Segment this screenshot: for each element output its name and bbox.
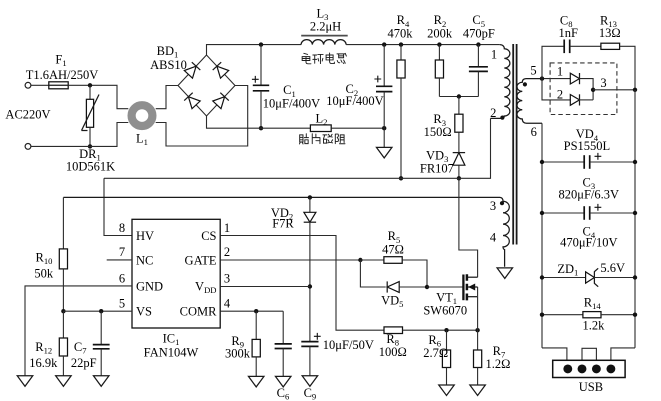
svg-text:1: 1 bbox=[557, 64, 563, 78]
phase dot secondary pin 5 bbox=[523, 82, 527, 86]
dual diode VD4 dashed package outline bbox=[550, 63, 617, 115]
wire R13 to plus rail bbox=[620, 46, 635, 90]
transformer core bbox=[512, 44, 514, 245]
svg-text:3: 3 bbox=[224, 271, 230, 285]
transformer auxiliary winding pins 3-4 bbox=[63, 197, 509, 266]
transformer T primary winding pins 1-2 bbox=[491, 45, 510, 119]
capacitor C2 bbox=[383, 45, 385, 87]
resistor R14 bbox=[542, 314, 583, 316]
transistor VT1 SW6070 MOSFET bbox=[462, 275, 464, 301]
pin 7 NC stub bbox=[107, 259, 132, 261]
junction R2 top bbox=[437, 42, 441, 46]
wire C8 to R13 bbox=[570, 45, 601, 47]
junction R6 top bbox=[444, 328, 448, 332]
junction R4 top bbox=[399, 42, 403, 46]
junction source / R7 node bbox=[475, 328, 479, 332]
junction VDD node bbox=[308, 284, 312, 288]
capacitor C5 bbox=[477, 45, 479, 67]
junction VD3 anode node bbox=[457, 176, 461, 180]
ground below R9 bbox=[248, 376, 264, 387]
node AC live terminal bbox=[25, 82, 31, 88]
label color-ring-inductor (CJK) bbox=[302, 53, 311, 63]
wire L1 to bridge AC input left bbox=[156, 86, 178, 109]
svg-text:COMR: COMR bbox=[180, 305, 217, 319]
wire R2 bottom to C5 bottom bbox=[439, 96, 478, 98]
wire VS line to IC pin 5 bbox=[63, 310, 132, 312]
ground below C9 bbox=[302, 376, 318, 387]
resistor R13 bbox=[601, 43, 620, 49]
svg-text:5: 5 bbox=[530, 63, 536, 77]
resistor R9 bbox=[255, 311, 257, 339]
diode VD4 element 1 bbox=[570, 73, 579, 84]
resistor R8 bbox=[384, 327, 403, 334]
svg-text:VS: VS bbox=[136, 305, 152, 319]
wire GATE split down to VD5 bbox=[360, 260, 385, 287]
junction C1 bottom bbox=[259, 126, 263, 130]
capacitor C6 bbox=[282, 311, 284, 344]
wire C8 branch up bbox=[542, 46, 564, 78]
svg-text:CS: CS bbox=[201, 229, 216, 243]
junction gate node bbox=[425, 285, 429, 289]
resistor R7 bbox=[477, 330, 479, 350]
svg-text:2: 2 bbox=[490, 106, 496, 120]
bridge rectifier BD1 diamond bbox=[178, 55, 235, 116]
wire VDD pin to C9/VD2 node bbox=[220, 286, 310, 288]
junction VD2 top on auxiliary line bbox=[308, 195, 312, 199]
junction GATE split bbox=[358, 258, 362, 262]
svg-text:ABS10: ABS10 bbox=[150, 58, 187, 72]
svg-text:10μF/400V: 10μF/400V bbox=[263, 97, 320, 111]
bridge diode top-left bbox=[184, 66, 196, 78]
svg-text:8: 8 bbox=[119, 221, 125, 235]
phase dot primary pin 2 bbox=[500, 116, 504, 120]
svg-text:7: 7 bbox=[119, 245, 125, 259]
svg-text:470k: 470k bbox=[388, 27, 414, 41]
wire gate node to VT1 gate bbox=[427, 286, 463, 288]
svg-text:470μF/10V: 470μF/10V bbox=[560, 236, 617, 250]
inductor L1 toroid core bbox=[132, 105, 153, 126]
wire L3 right along top rail to transformer pin 1 bbox=[346, 44, 500, 46]
svg-text:USB: USB bbox=[579, 380, 603, 394]
wire C2 bottom to primary ground bbox=[383, 128, 385, 147]
ground below R12 bbox=[56, 376, 72, 387]
svg-text:2: 2 bbox=[224, 245, 230, 259]
diode VD5 bbox=[387, 282, 399, 293]
wire plus rail down bbox=[634, 90, 636, 348]
resistor R5 bbox=[360, 259, 384, 261]
wire bridge minus to bottom rail bbox=[207, 116, 311, 128]
svg-text:AC220V: AC220V bbox=[5, 107, 50, 121]
junction C2 bottom bbox=[382, 126, 386, 130]
svg-text:16.9k: 16.9k bbox=[29, 356, 58, 370]
svg-text:NC: NC bbox=[136, 253, 153, 267]
svg-text:T1.6AH/250V: T1.6AH/250V bbox=[26, 68, 99, 82]
transformer secondary winding pins 5-6 bbox=[517, 79, 542, 124]
junction bottom of DR1 bbox=[88, 144, 92, 148]
diode VD3 bbox=[453, 153, 465, 166]
wire HV line from IC pin8 riser to drain node bbox=[104, 177, 459, 179]
capacitor C4 bbox=[542, 212, 584, 214]
ground below C2 bbox=[376, 147, 392, 158]
junction R9 top bbox=[254, 309, 258, 313]
capacitor C8 bbox=[563, 40, 565, 54]
wire VT1 source down to sense node bbox=[477, 297, 479, 331]
svg-text:1: 1 bbox=[491, 47, 497, 61]
fuse F1 bbox=[49, 82, 68, 89]
wire fuse to DR1 node and on to L1 bbox=[68, 85, 128, 108]
svg-text:1nF: 1nF bbox=[558, 26, 578, 40]
svg-text:5: 5 bbox=[119, 297, 125, 311]
svg-text:HV: HV bbox=[136, 229, 154, 243]
ground below R7 bbox=[470, 385, 486, 396]
wire L1 to bridge AC input right bbox=[156, 86, 248, 147]
op-amp controller IC1 FAN104W bbox=[132, 219, 220, 328]
svg-text:6: 6 bbox=[531, 125, 537, 139]
svg-text:200k: 200k bbox=[427, 27, 453, 41]
wire USB data pins loop bbox=[582, 348, 596, 360]
svg-text:300k: 300k bbox=[225, 347, 251, 361]
svg-text:GATE: GATE bbox=[185, 253, 217, 267]
svg-text:6: 6 bbox=[119, 271, 125, 285]
ground for GND pin bbox=[17, 376, 33, 387]
svg-text:10μF/400V: 10μF/400V bbox=[326, 94, 383, 108]
resistor R2 bbox=[438, 45, 440, 60]
wire drain node down to VT1 drain bbox=[459, 178, 478, 277]
svg-text:PS1550L: PS1550L bbox=[564, 139, 611, 153]
svg-text:2.7Ω: 2.7Ω bbox=[423, 346, 448, 360]
junction common cathode node 3 bbox=[591, 88, 595, 92]
svg-text:1.2Ω: 1.2Ω bbox=[486, 357, 511, 371]
resistor R3 bbox=[458, 97, 460, 115]
svg-text:22pF: 22pF bbox=[71, 356, 97, 370]
svg-text:2.2μH: 2.2μH bbox=[310, 20, 341, 34]
svg-text:470pF: 470pF bbox=[463, 27, 495, 41]
label chip-magnetic-bead (CJK) bbox=[299, 134, 308, 144]
diode VD4 element 2 input branch bbox=[542, 79, 570, 100]
wire bridge plus to top rail / L3 left bbox=[207, 45, 302, 55]
svg-text:10μF/50V: 10μF/50V bbox=[323, 338, 374, 352]
bridge diode bottom-right bbox=[213, 97, 225, 109]
phase dot auxiliary pin 3 bbox=[500, 201, 504, 205]
capacitor C9 bbox=[301, 341, 318, 343]
node AC neutral terminal bbox=[25, 144, 31, 150]
svg-text:F7R: F7R bbox=[272, 216, 294, 230]
svg-text:13Ω: 13Ω bbox=[599, 26, 621, 40]
junction R3 top bbox=[457, 94, 461, 98]
svg-text:100Ω: 100Ω bbox=[379, 345, 407, 359]
capacitor C7 bbox=[100, 311, 102, 344]
bridge diode top-right bbox=[217, 66, 229, 78]
ground below C7 bbox=[93, 376, 109, 387]
wire GND pin to ground bbox=[25, 286, 132, 376]
wire live terminal to fuse bbox=[31, 84, 49, 86]
wire plus rail to USB pin 4 bbox=[611, 348, 635, 360]
junction C2 top bbox=[382, 42, 386, 46]
wire neutral terminal to L1 bbox=[31, 123, 128, 147]
capacitor C1 bbox=[260, 45, 262, 86]
junction plus rail at node 3 bbox=[633, 88, 637, 92]
ground below C6 bbox=[275, 376, 291, 387]
svg-text:5.6V: 5.6V bbox=[600, 261, 625, 275]
junction C1 top bbox=[259, 42, 263, 46]
capacitor C3 bbox=[542, 161, 584, 163]
svg-text:150Ω: 150Ω bbox=[424, 125, 452, 139]
wire left rail to USB pin 1 bbox=[542, 348, 567, 360]
resistor R12 bbox=[62, 311, 64, 338]
svg-text:GND: GND bbox=[136, 279, 163, 293]
wire VD5 anode to gate node bbox=[399, 286, 427, 288]
wire pin5 line to rectifier bbox=[542, 78, 570, 80]
wire COMR pin to R9 and C6 bbox=[220, 310, 283, 312]
wire R8 to current sense node bbox=[403, 329, 478, 331]
junction C5 top bbox=[476, 42, 480, 46]
zener diode ZD1 bbox=[542, 277, 586, 279]
svg-text:FAN104W: FAN104W bbox=[144, 345, 199, 359]
svg-text:3: 3 bbox=[600, 76, 606, 90]
junction R4 bottom on HV line bbox=[399, 176, 403, 180]
wire L2 to C2 bottom bbox=[331, 127, 384, 129]
svg-text:FR107: FR107 bbox=[420, 161, 454, 175]
svg-text:SW6070: SW6070 bbox=[423, 304, 467, 318]
wire CS pin to R8 bbox=[220, 236, 384, 331]
svg-text:10D561K: 10D561K bbox=[66, 160, 115, 174]
junction C7 top bbox=[99, 309, 103, 313]
inductor L3 bbox=[301, 40, 346, 45]
svg-text:1: 1 bbox=[224, 221, 230, 235]
bridge diode bottom-left bbox=[188, 97, 200, 109]
ferrite bead L2 bbox=[310, 125, 331, 132]
svg-text:1.2k: 1.2k bbox=[582, 318, 605, 332]
svg-text:50k: 50k bbox=[34, 267, 54, 281]
svg-text:47Ω: 47Ω bbox=[382, 243, 404, 257]
wire R5 to gate node bbox=[402, 260, 427, 287]
resistor R4 bbox=[400, 45, 402, 60]
ground below R6 bbox=[439, 385, 455, 396]
wire drain node to primary pin 2 bbox=[459, 118, 491, 178]
diode VD4 element 2 bbox=[570, 95, 579, 106]
connector USB bbox=[553, 360, 625, 377]
wire HV riser down to IC pin 8 bbox=[104, 178, 132, 235]
svg-text:820μF/6.3V: 820μF/6.3V bbox=[559, 188, 620, 202]
wire diode2 cathode to common node bbox=[580, 99, 594, 101]
svg-text:2: 2 bbox=[557, 88, 563, 102]
wire GATE pin to R5/VD5 junction bbox=[220, 259, 360, 261]
varistor DR1 bbox=[89, 85, 91, 99]
wire node 3 to plus rail bbox=[593, 89, 635, 91]
wire secondary pin6 down left rail bbox=[541, 123, 543, 348]
junction pin5 / C8 branch bbox=[540, 76, 544, 80]
svg-text:3: 3 bbox=[490, 199, 496, 213]
diode VD2 bbox=[309, 197, 311, 212]
junction top of DR1 bbox=[88, 83, 92, 87]
junction VS / R10 / R12 bbox=[61, 309, 65, 313]
ground below auxiliary winding bbox=[497, 268, 513, 279]
resistor R10 bbox=[62, 197, 64, 249]
svg-text:4: 4 bbox=[224, 297, 231, 311]
wire diode1 cathode to common node bbox=[580, 79, 594, 100]
resistor R6 bbox=[446, 330, 448, 350]
svg-text:4: 4 bbox=[490, 230, 497, 244]
